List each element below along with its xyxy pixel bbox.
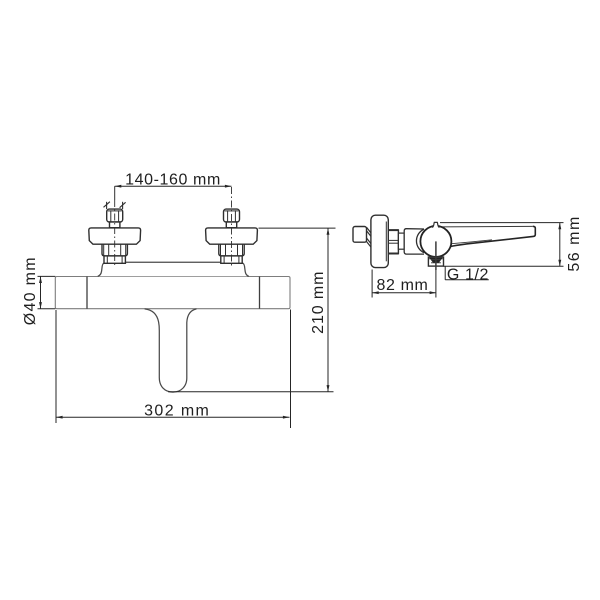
left valve nut facet lines — [110, 210, 112, 222]
right valve nut facet lines — [227, 210, 229, 222]
left valve thread break slashes — [104, 202, 110, 208]
dimension 56 mm — [559, 223, 561, 267]
G 1/2 leader line — [443, 265, 563, 267]
raised center section of body — [98, 262, 249, 276]
faucet body bar (front) — [55, 277, 290, 309]
right valve flange — [206, 228, 258, 244]
left valve hex nut — [107, 209, 123, 222]
outlet — [428, 257, 443, 266]
handle right and bottom edge — [450, 226, 536, 246]
svg-text:56 mm: 56 mm — [566, 215, 583, 271]
side body block — [404, 229, 424, 254]
left valve washer inner lines — [106, 256, 108, 263]
wall flange (side) — [371, 215, 388, 267]
dimension 56 mm extension line top — [440, 222, 564, 224]
right valve centerline — [231, 187, 233, 267]
cartridge boss arc — [416, 229, 424, 253]
dimension 302 mm extension lines — [55, 310, 57, 423]
side collar — [398, 233, 404, 249]
cap on top — [432, 222, 439, 228]
right valve stem — [226, 222, 236, 228]
right valve nut inner top line — [225, 210, 239, 212]
spout funnel (front) — [145, 309, 197, 392]
left valve nut inner top line — [108, 210, 122, 212]
body left inset line — [86, 277, 88, 309]
body right inset line — [259, 277, 261, 309]
svg-text:302 mm: 302 mm — [144, 402, 210, 419]
right valve group (center x=231.5) — [206, 209, 258, 263]
left valve flange — [89, 228, 141, 244]
dimension 82 mm extension lines — [371, 270, 373, 298]
dimension 82 mm — [372, 292, 436, 294]
side nut — [388, 230, 398, 253]
lever handle — [438, 226, 535, 247]
left valve centerline — [114, 186, 116, 200]
svg-text:82 mm: 82 mm — [377, 277, 429, 294]
right valve hex collar — [219, 244, 244, 256]
svg-text:Ø40 mm: Ø40 mm — [22, 256, 39, 325]
right valve hex nut — [224, 209, 240, 222]
cartridge circle — [420, 226, 451, 257]
dimension 210 mm extension lines — [259, 227, 336, 229]
handle inner edge line — [452, 240, 493, 244]
svg-text:140-160 mm: 140-160 mm — [125, 172, 221, 189]
pipe stub — [353, 227, 367, 243]
left valve washer — [104, 256, 125, 263]
left valve thread stub lines above nut — [106, 202, 108, 209]
handle top edge — [440, 225, 533, 228]
dimension 210 mm — [327, 228, 329, 392]
right valve washer — [221, 256, 242, 263]
left valve hex collar — [102, 244, 127, 256]
flange inner edge line — [385, 222, 387, 262]
left valve group (center x=114.7) — [89, 209, 141, 263]
dimension 302 mm — [56, 416, 290, 418]
eccentric neck diagonals — [367, 227, 372, 233]
right valve hex facet lines — [220, 244, 222, 255]
left valve hex facet lines — [103, 244, 105, 255]
outlet centerline — [435, 241, 437, 270]
svg-text:210 mm: 210 mm — [310, 271, 327, 334]
svg-text:G 1/2: G 1/2 — [447, 266, 489, 283]
dimension 140-160 mm — [115, 185, 232, 187]
right valve washer inner lines — [223, 256, 225, 263]
left valve stem — [110, 222, 120, 228]
dimension Ø40 mm — [38, 275, 56, 277]
outlet dark trapezoid — [429, 258, 442, 260]
